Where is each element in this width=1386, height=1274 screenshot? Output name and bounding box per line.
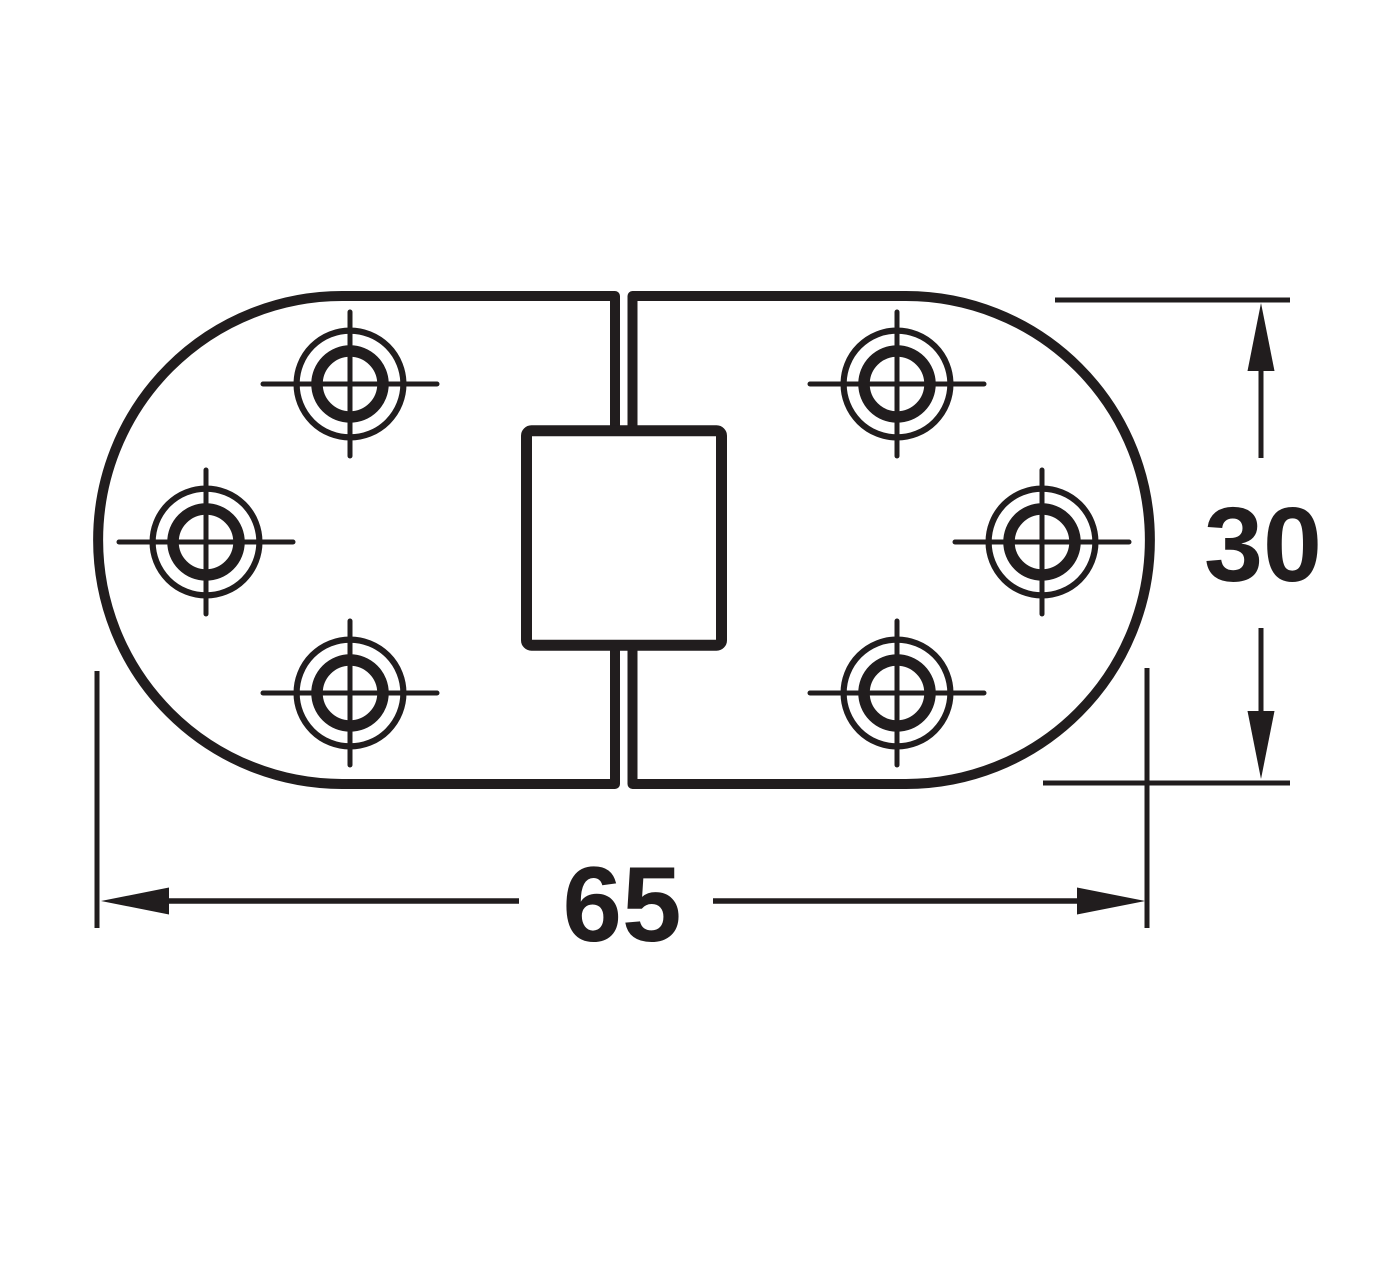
screw hole mid-left (119, 470, 293, 614)
extension line left (65 dim) (95, 671, 100, 928)
dimension 30 down arrow (1248, 628, 1275, 779)
screw hole mid-right (955, 470, 1129, 614)
screw hole top-right (810, 312, 984, 456)
svg-text:65: 65 (562, 844, 681, 964)
dimension 65 left arrow (101, 888, 519, 915)
knuckle square (527, 431, 722, 646)
dimension text 65 (562, 844, 681, 964)
dimension 30 up arrow (1248, 303, 1275, 458)
extension line top (30 dim) (1055, 298, 1290, 303)
screw hole bottom-right (810, 621, 984, 765)
screw hole bottom-left (263, 621, 437, 765)
svg-text:30: 30 (1204, 486, 1322, 604)
extension line right (65 dim) (1145, 668, 1150, 928)
dimension 65 right arrow (713, 888, 1145, 915)
hinge right leaf outline (633, 296, 1150, 784)
screw hole top-left (263, 312, 437, 456)
hinge left leaf outline (98, 296, 615, 784)
dimension text 30 (1204, 486, 1322, 604)
extension line bottom (30 dim) (1043, 781, 1290, 786)
